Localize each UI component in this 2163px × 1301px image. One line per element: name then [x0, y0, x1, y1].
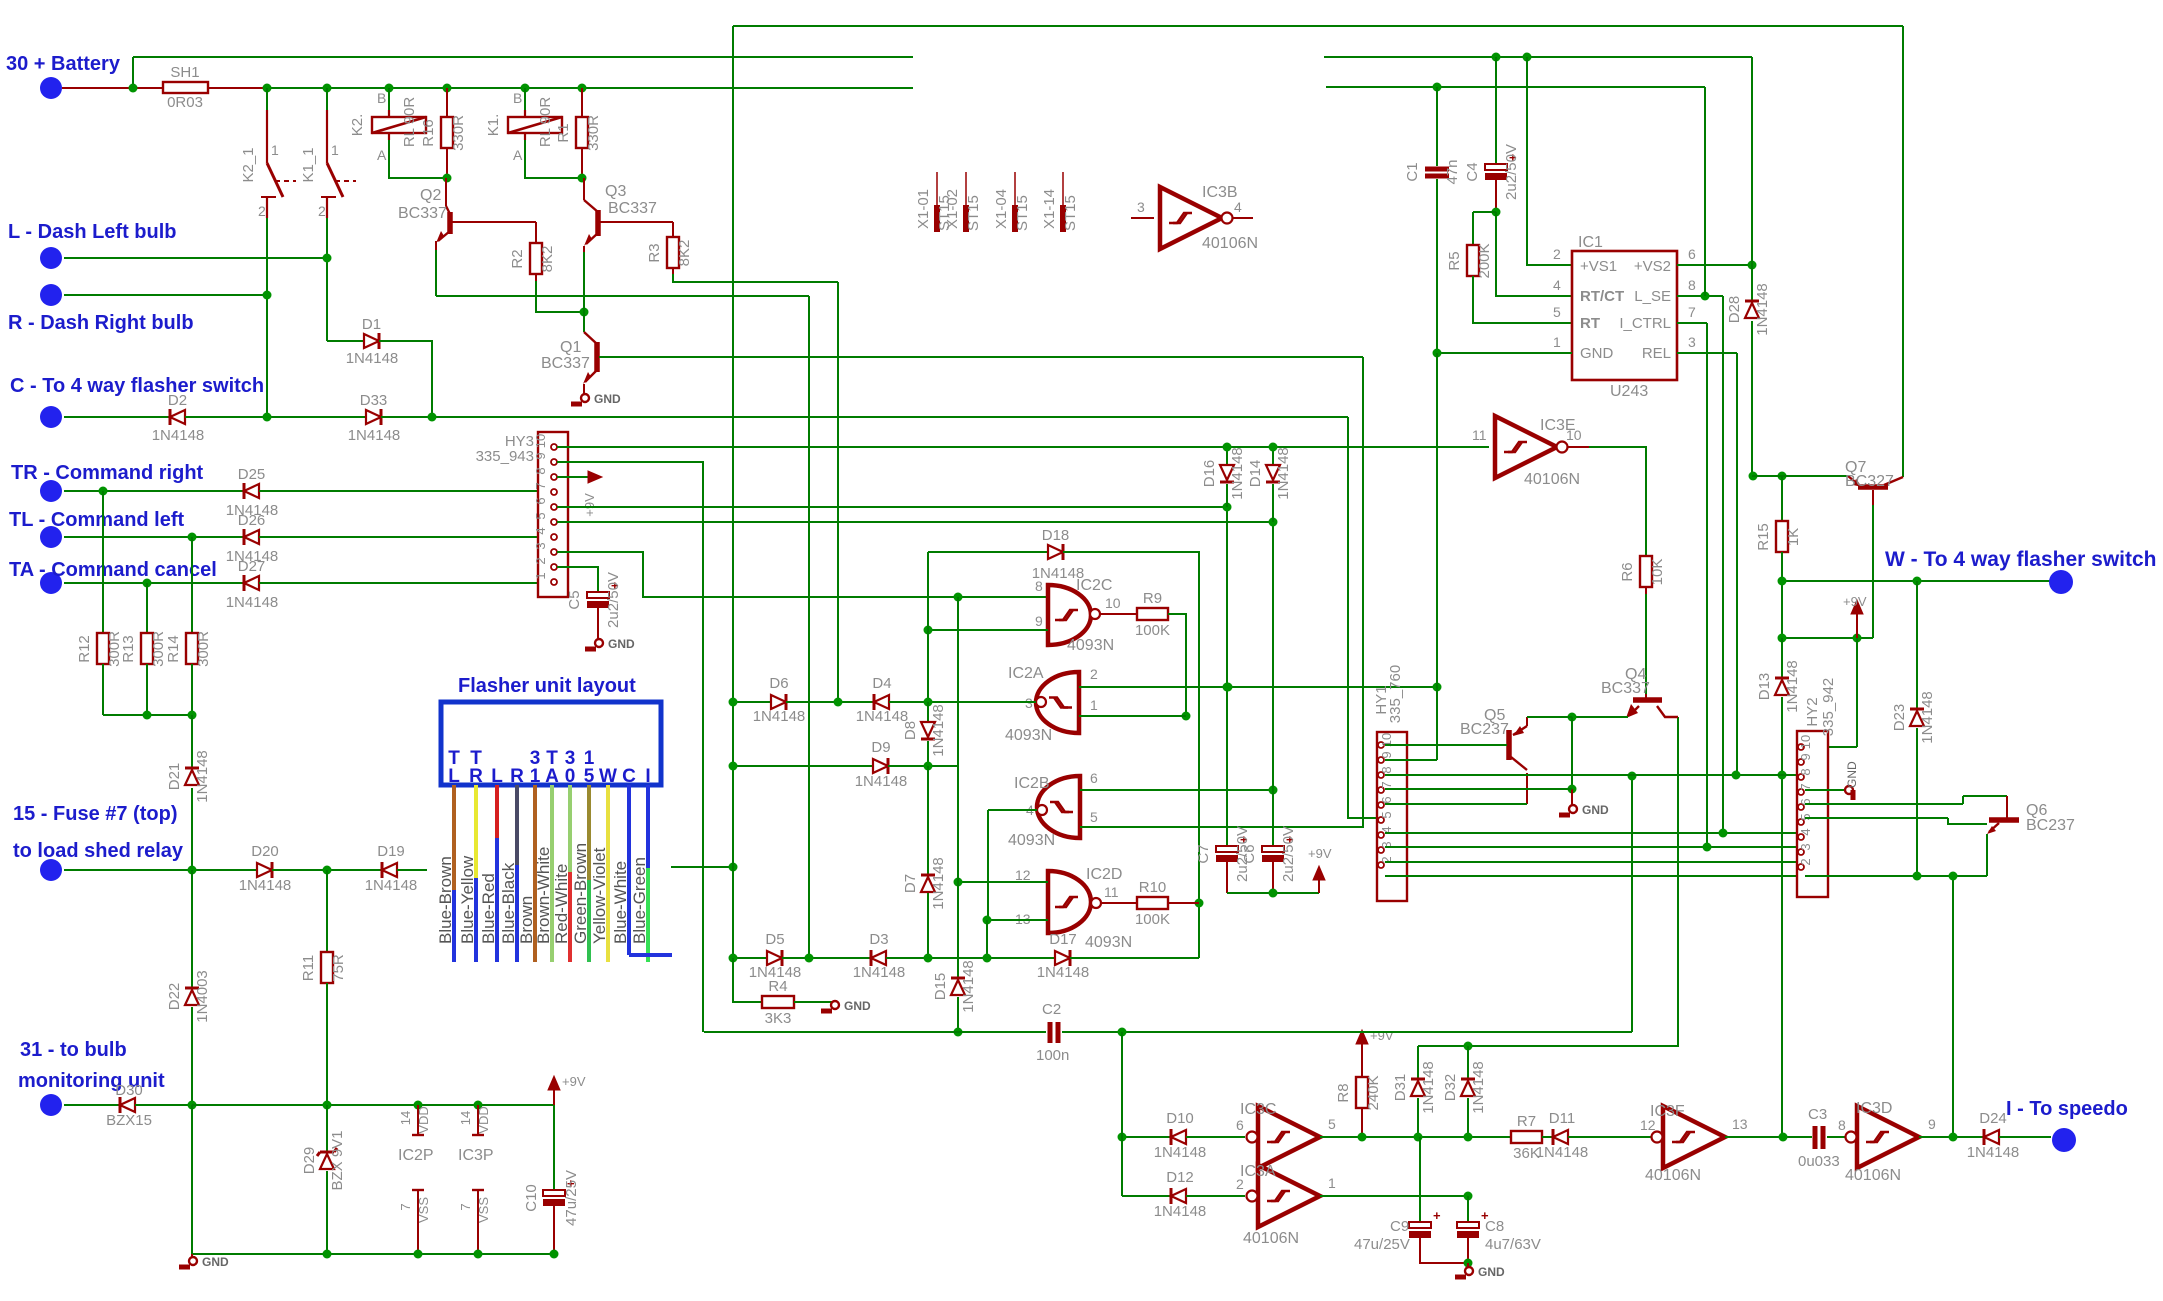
svg-text:R5: R5: [1446, 251, 1463, 270]
diode D12: [1171, 1189, 1186, 1203]
HY1 pin9 wire: [1385, 759, 1437, 761]
diode D22: [191, 870, 193, 988]
svg-text:2: 2: [318, 203, 326, 219]
svg-text:1N4148: 1N4148: [1154, 1203, 1207, 1220]
HY2 pin6 wire Q6 collector: [1805, 803, 1963, 805]
svg-text:+9V: +9V: [1308, 846, 1332, 861]
diode D30: [64, 1104, 120, 1106]
svg-text:C9: C9: [1390, 1218, 1409, 1235]
diodes D6 D4 rail: [733, 701, 771, 703]
svg-text:47u/25V: 47u/25V: [563, 1170, 580, 1226]
svg-text:5: 5: [1379, 811, 1394, 818]
resistor R8 +9V: [1356, 1030, 1368, 1044]
svg-text:1N4003: 1N4003: [194, 970, 211, 1023]
svg-text:1N4148: 1N4148: [753, 708, 806, 725]
svg-text:IC3D: IC3D: [1856, 1100, 1892, 1117]
vertical x987: [986, 920, 988, 958]
svg-text:7: 7: [398, 1203, 413, 1210]
wire Q1 base net down: [1362, 357, 1364, 827]
svg-text:D29: D29: [301, 1147, 318, 1175]
svg-text:D15: D15: [932, 973, 949, 1001]
vertical x958 D15: [957, 597, 959, 978]
wire TR: [64, 490, 244, 492]
svg-text:A: A: [377, 147, 387, 163]
wire Q2 emitter down: [435, 241, 437, 250]
svg-text:D27: D27: [238, 558, 266, 575]
terminal L dash left: [40, 247, 62, 269]
svg-text:Blue-White: Blue-White: [611, 861, 630, 944]
relay K1 coil: [524, 88, 526, 110]
vertical x928: [927, 597, 929, 702]
HY2 pin1 wire D23: [1805, 875, 1987, 877]
svg-text:+: +: [1433, 1208, 1441, 1223]
wire +VS1 drop: [1527, 57, 1572, 265]
svg-text:K2_1: K2_1: [240, 147, 257, 182]
svg-text:5: 5: [1553, 304, 1561, 320]
wire IC2B pin6 out: [1080, 789, 1273, 791]
svg-text:D24: D24: [1979, 1110, 2007, 1127]
wire IC2A pin3: [928, 701, 1036, 703]
diode D19: [382, 863, 397, 877]
wire IC2D pin12: [958, 881, 1048, 883]
wire R3 to D6 rail: [837, 282, 839, 702]
svg-text:D22: D22: [166, 983, 183, 1011]
wire IC2B pin5 in: [1080, 826, 1364, 828]
diodes D9 rail: [733, 765, 873, 767]
svg-text:240K: 240K: [1365, 1075, 1382, 1110]
wire stub to vertical 733: [671, 866, 733, 868]
wire Q5 node to GND: [1571, 717, 1573, 789]
svg-text:BC327: BC327: [1845, 473, 1894, 490]
transistor Q7 BC327: [1858, 484, 1888, 490]
svg-text:BC337: BC337: [541, 355, 590, 372]
svg-text:8: 8: [533, 467, 548, 474]
HY3 pin10 wire to IC3E: [557, 446, 1489, 448]
svg-text:11: 11: [1104, 884, 1119, 900]
HY1 pin1 wire: [1385, 875, 1797, 877]
wire R: [64, 294, 267, 296]
wire TA: [64, 582, 244, 584]
svg-text:BC337: BC337: [398, 205, 447, 222]
svg-text:IC3P: IC3P: [458, 1147, 494, 1164]
svg-text:1: 1: [1328, 1175, 1336, 1191]
svg-text:6: 6: [1236, 1117, 1244, 1133]
diodes D31 D32: [1417, 1046, 1419, 1079]
svg-text:D3: D3: [869, 931, 888, 948]
svg-text:D2: D2: [168, 392, 187, 409]
svg-text:GND: GND: [202, 1255, 229, 1269]
svg-text:Flasher unit layout: Flasher unit layout: [458, 675, 636, 697]
svg-text:D4: D4: [872, 675, 891, 692]
svg-text:1N4148: 1N4148: [1536, 1144, 1589, 1161]
ground rail bottom: [191, 1105, 193, 1254]
svg-text:Blue-Yellow: Blue-Yellow: [458, 855, 477, 944]
svg-text:D23: D23: [1891, 704, 1908, 732]
svg-text:IC3F: IC3F: [1650, 1103, 1685, 1120]
IC U243 box: [1572, 251, 1677, 380]
ground symbol rail: [191, 1254, 193, 1258]
resistor R1: [581, 88, 583, 117]
svg-text:1K: 1K: [1785, 528, 1802, 546]
svg-text:U243: U243: [1610, 383, 1648, 400]
wire GND pin1: [1437, 352, 1572, 354]
svg-text:12: 12: [1015, 867, 1031, 883]
svg-text:1N4148: 1N4148: [856, 708, 909, 725]
svg-text:1N4148: 1N4148: [194, 750, 211, 803]
terminal TL command left: [40, 526, 62, 548]
HY1 pin10 wire Q5 base: [1385, 744, 1507, 746]
power IC2P: [417, 1105, 419, 1135]
node dots TR TL TA rails: [954, 593, 963, 602]
node K2A junction: [443, 174, 452, 183]
svg-text:GND: GND: [1582, 803, 1609, 817]
wire Q6 emitter to IC3D out: [1986, 834, 1988, 876]
power arrow +9V C10: [548, 1076, 560, 1090]
svg-text:2u2/50V: 2u2/50V: [605, 572, 622, 628]
svg-text:2u2/50V: 2u2/50V: [1280, 826, 1297, 882]
capacitor C6: [1272, 522, 1274, 846]
svg-text:C3: C3: [1808, 1106, 1827, 1123]
svg-text:L - Dash Left bulb: L - Dash Left bulb: [8, 221, 177, 243]
svg-text:300R: 300R: [195, 631, 212, 667]
wire RT/CT pin4: [1496, 212, 1572, 296]
svg-text:10: 10: [1798, 735, 1813, 749]
svg-text:1: 1: [530, 766, 541, 787]
svg-text:Green-Brown: Green-Brown: [571, 843, 590, 944]
wire Q4 base branch D31 D32: [1677, 717, 1679, 1047]
svg-text:C - To 4 way flasher switch: C - To 4 way flasher switch: [10, 375, 264, 397]
svg-text:R11: R11: [300, 955, 317, 981]
svg-text:4: 4: [533, 527, 548, 534]
svg-text:D6: D6: [769, 675, 788, 692]
gate IC2A: [1036, 672, 1079, 733]
svg-text:9: 9: [1928, 1116, 1936, 1132]
terminal C flasher switch: [40, 406, 62, 428]
diode D9: [873, 759, 888, 773]
svg-text:5: 5: [584, 766, 595, 787]
diode D16: [1226, 447, 1228, 465]
HY1 pin8 wire to HY2: [1385, 774, 1797, 776]
wire IC2A pin1 to R9: [1079, 715, 1186, 717]
diode D6: [771, 695, 786, 709]
svg-text:GND: GND: [844, 999, 871, 1013]
resistor R12: [102, 491, 104, 633]
wire REL pin3: [1677, 352, 1737, 354]
wire R12 R13 R14 common: [102, 664, 104, 715]
svg-text:D14: D14: [1247, 460, 1264, 488]
svg-text:IC2D: IC2D: [1086, 866, 1122, 883]
svg-text:1N4148: 1N4148: [1470, 1061, 1487, 1114]
svg-text:R14: R14: [165, 635, 182, 663]
resistor R10: [1101, 902, 1137, 904]
wire Q7 base down: [1872, 490, 1874, 505]
inverter IC3A: [1122, 1195, 1171, 1197]
svg-text:7: 7: [1688, 304, 1696, 320]
svg-text:D30: D30: [115, 1082, 143, 1099]
wire right rail y87: [1326, 86, 1705, 88]
svg-text:monitoring unit: monitoring unit: [18, 1070, 165, 1092]
svg-text:R7: R7: [1517, 1113, 1536, 1130]
terminal 15 fuse: [40, 859, 62, 881]
svg-text:9: 9: [1798, 753, 1813, 760]
svg-text:R - Dash Right bulb: R - Dash Right bulb: [8, 312, 194, 334]
svg-text:2: 2: [1798, 858, 1813, 865]
svg-text:4093N: 4093N: [1085, 934, 1132, 951]
svg-text:2u2/50V: 2u2/50V: [1503, 144, 1520, 200]
svg-text:R15: R15: [1755, 523, 1772, 551]
svg-text:15 - Fuse #7 (top): 15 - Fuse #7 (top): [13, 803, 177, 825]
HY1 pin4 wire to HY2: [1385, 832, 1797, 834]
diode D17: [1055, 951, 1070, 965]
svg-text:Blue-Green: Blue-Green: [630, 857, 649, 944]
wire TL: [64, 536, 244, 538]
svg-text:1N4148: 1N4148: [1754, 283, 1771, 336]
svg-text:I - To speedo: I - To speedo: [2006, 1098, 2128, 1120]
svg-text:4: 4: [1798, 828, 1813, 835]
diode D21: [191, 715, 193, 768]
svg-text:K1.: K1.: [485, 114, 502, 137]
power IC3P: [477, 1105, 479, 1135]
svg-text:2: 2: [258, 203, 266, 219]
HY3 pin8 +9V arrow: [557, 476, 588, 478]
svg-text:13: 13: [1732, 1116, 1748, 1132]
svg-text:R: R: [469, 766, 483, 787]
svg-text:A: A: [513, 147, 523, 163]
svg-text:IC2B: IC2B: [1014, 775, 1050, 792]
svg-text:1N4148: 1N4148: [1420, 1061, 1437, 1114]
svg-text:IC3B: IC3B: [1202, 184, 1238, 201]
svg-text:8: 8: [1379, 766, 1394, 773]
resistor R7: [1511, 1131, 1542, 1143]
svg-text:6: 6: [1688, 246, 1696, 262]
svg-text:2: 2: [533, 557, 548, 564]
gate IC2D: [1048, 871, 1091, 933]
diode D27: [244, 576, 259, 590]
svg-text:SH1: SH1: [170, 64, 199, 81]
terminal 30 + Battery: [40, 77, 62, 99]
capacitor C3: [1813, 1126, 1818, 1149]
svg-text:3: 3: [1798, 843, 1813, 850]
svg-text:D7: D7: [902, 874, 919, 893]
svg-text:TR - Command right: TR - Command right: [11, 462, 204, 484]
svg-text:4093N: 4093N: [1067, 637, 1114, 654]
diode D25: [244, 484, 259, 498]
svg-text:3: 3: [1688, 334, 1696, 350]
svg-text:1N4148: 1N4148: [239, 877, 292, 894]
svg-text:4093N: 4093N: [1005, 727, 1052, 744]
wire L: [64, 257, 327, 259]
svg-text:330R: 330R: [585, 115, 602, 151]
svg-text:10: 10: [533, 434, 548, 448]
svg-text:14: 14: [398, 1111, 413, 1125]
resistor R11: [326, 870, 328, 952]
ground R4: [831, 1001, 839, 1009]
transistor Q6 BC237: [1989, 817, 2019, 823]
svg-text:C: C: [622, 766, 636, 787]
svg-text:1N4148: 1N4148: [348, 427, 401, 444]
wire K1_1 down to D1: [326, 218, 328, 341]
svg-text:1N4148: 1N4148: [930, 857, 947, 910]
svg-text:IC1: IC1: [1578, 234, 1603, 251]
svg-text:1N4148: 1N4148: [152, 427, 205, 444]
svg-text:B: B: [513, 90, 522, 106]
svg-text:5: 5: [533, 512, 548, 519]
svg-text:4: 4: [1553, 277, 1561, 293]
svg-text:D21: D21: [166, 763, 183, 791]
resistor R16: [446, 88, 448, 117]
svg-text:C8: C8: [1485, 1218, 1504, 1235]
svg-text:Red-White: Red-White: [552, 864, 571, 944]
svg-text:X1-04: X1-04: [993, 189, 1010, 229]
wire right vertical from top rail to Q7 collector: [1902, 26, 1904, 477]
resistor R4: [733, 958, 762, 1002]
wire C with D2 D33: [64, 416, 170, 418]
wire IC2A pin2 to IC1 GND net: [1079, 686, 1437, 688]
resistor R14: [191, 537, 193, 633]
svg-text:6: 6: [1090, 770, 1098, 786]
svg-text:8K2: 8K2: [676, 240, 693, 267]
connector HY1: [1377, 732, 1407, 901]
svg-text:RL 90R: RL 90R: [537, 97, 554, 147]
diode D28: [1751, 265, 1753, 301]
inverter IC3F: [1663, 1106, 1725, 1168]
wire IC2B pin4: [988, 809, 1037, 811]
diode D14: [1272, 447, 1274, 465]
wire K2_1 to R bulb and C: [266, 218, 268, 417]
resistor R9: [1100, 613, 1137, 615]
svg-text:C2: C2: [1042, 1001, 1061, 1018]
diode D26: [244, 530, 259, 544]
connector HY2: [1797, 731, 1828, 897]
svg-text:0: 0: [565, 766, 576, 787]
svg-text:40106N: 40106N: [1645, 1167, 1701, 1184]
svg-text:8: 8: [1688, 277, 1696, 293]
wire W: [1782, 580, 2051, 582]
svg-text:D10: D10: [1166, 1110, 1194, 1127]
svg-text:40106N: 40106N: [1845, 1167, 1901, 1184]
svg-text:+9V: +9V: [562, 1074, 586, 1089]
svg-text:1N4148: 1N4148: [1154, 1144, 1207, 1161]
svg-text:REL: REL: [1642, 345, 1671, 362]
svg-text:335_942: 335_942: [1820, 678, 1837, 736]
svg-text:D33: D33: [360, 392, 388, 409]
svg-text:Blue-Black: Blue-Black: [499, 862, 518, 944]
node Q1 collector: [580, 308, 589, 317]
svg-text:RT/CT: RT/CT: [1580, 288, 1624, 305]
svg-text:47u/25V: 47u/25V: [1354, 1236, 1410, 1253]
gate IC2C: [1048, 585, 1091, 645]
diode D13: [1781, 638, 1783, 678]
svg-text:4: 4: [1234, 199, 1242, 215]
svg-text:4093N: 4093N: [1008, 832, 1055, 849]
svg-text:1N4148: 1N4148: [346, 350, 399, 367]
svg-text:8: 8: [1798, 768, 1813, 775]
HY3 pin2 wire to C5: [557, 567, 598, 592]
svg-text:BC237: BC237: [2026, 817, 2075, 834]
svg-text:BC237: BC237: [1460, 721, 1509, 738]
svg-text:40106N: 40106N: [1202, 235, 1258, 252]
capacitor C8: [1467, 1196, 1469, 1222]
svg-text:D17: D17: [1049, 931, 1077, 948]
svg-text:BC337: BC337: [608, 200, 657, 217]
svg-text:8K2: 8K2: [539, 246, 556, 273]
svg-text:D18: D18: [1042, 527, 1070, 544]
svg-text:Brown-White: Brown-White: [534, 847, 553, 944]
resistor R2: [535, 222, 537, 243]
diode D20: [257, 863, 272, 877]
svg-text:I: I: [645, 766, 650, 787]
diode D1: [327, 340, 364, 342]
inverter IC3C: [1122, 1136, 1171, 1138]
wire D31 D32 top rail: [1418, 1045, 1678, 1047]
svg-text:BZX15: BZX15: [106, 1112, 152, 1129]
svg-text:5: 5: [1328, 1116, 1336, 1132]
svg-text:D32: D32: [1442, 1074, 1459, 1102]
svg-text:1N4148: 1N4148: [1037, 964, 1090, 981]
svg-text:TL - Command left: TL - Command left: [9, 509, 185, 531]
terminal TA command cancel: [40, 572, 62, 594]
HY1 pin3 wire to HY2: [1385, 846, 1797, 848]
svg-text:D11: D11: [1549, 1110, 1575, 1127]
svg-text:R9: R9: [1143, 590, 1162, 607]
relay K2 coil: [388, 88, 390, 110]
power arrow +9V Q7: [1851, 600, 1863, 614]
diode D5: [767, 951, 782, 965]
transistor Q2 BC337: [445, 178, 447, 206]
diodes D5 D3 D17 rail: [733, 957, 767, 959]
svg-text:R3: R3: [646, 243, 663, 262]
svg-text:C4: C4: [1464, 162, 1481, 181]
switch K1_1: [326, 88, 328, 110]
HY3 pin5 wire: [557, 521, 1273, 523]
svg-text:1: 1: [533, 572, 548, 579]
wire +9V node R15 D13: [1782, 637, 1873, 639]
terminal 31 bulb monitoring: [40, 1094, 62, 1116]
svg-text:Q3: Q3: [605, 183, 626, 200]
node battery bus: [62, 87, 163, 89]
svg-text:1N4148: 1N4148: [1919, 691, 1936, 744]
svg-text:D1: D1: [362, 316, 381, 333]
svg-text:D12: D12: [1166, 1169, 1194, 1186]
svg-text:7: 7: [533, 482, 548, 489]
wire IC3E out to R6: [1589, 447, 1646, 556]
svg-text:D8: D8: [902, 721, 919, 740]
vertical rail x733: [732, 26, 734, 958]
svg-text:+9V: +9V: [582, 493, 597, 517]
svg-text:40106N: 40106N: [1524, 471, 1580, 488]
svg-text:D20: D20: [251, 843, 279, 860]
svg-text:R1: R1: [555, 123, 572, 142]
svg-text:2: 2: [1553, 246, 1561, 262]
terminal R dash right: [40, 284, 62, 306]
svg-text:RT: RT: [1580, 315, 1600, 332]
svg-text:3K3: 3K3: [765, 1010, 792, 1027]
svg-text:1N4148: 1N4148: [365, 877, 418, 894]
ground C5: [595, 639, 603, 647]
wire L_SE down: [1722, 296, 1724, 833]
diode D10: [1171, 1130, 1186, 1144]
resistor R6: [1640, 556, 1652, 587]
svg-text:C10: C10: [523, 1184, 540, 1212]
wire IC3C out rail: [1362, 1136, 1511, 1138]
svg-text:Q2: Q2: [420, 187, 441, 204]
svg-text:8: 8: [1838, 1117, 1846, 1133]
svg-text:C5: C5: [566, 590, 583, 609]
shunt SH1: [163, 82, 208, 93]
svg-text:L_SE: L_SE: [1634, 288, 1671, 305]
transistor Q4 BC337: [1633, 697, 1662, 703]
svg-text:R13: R13: [120, 635, 137, 663]
